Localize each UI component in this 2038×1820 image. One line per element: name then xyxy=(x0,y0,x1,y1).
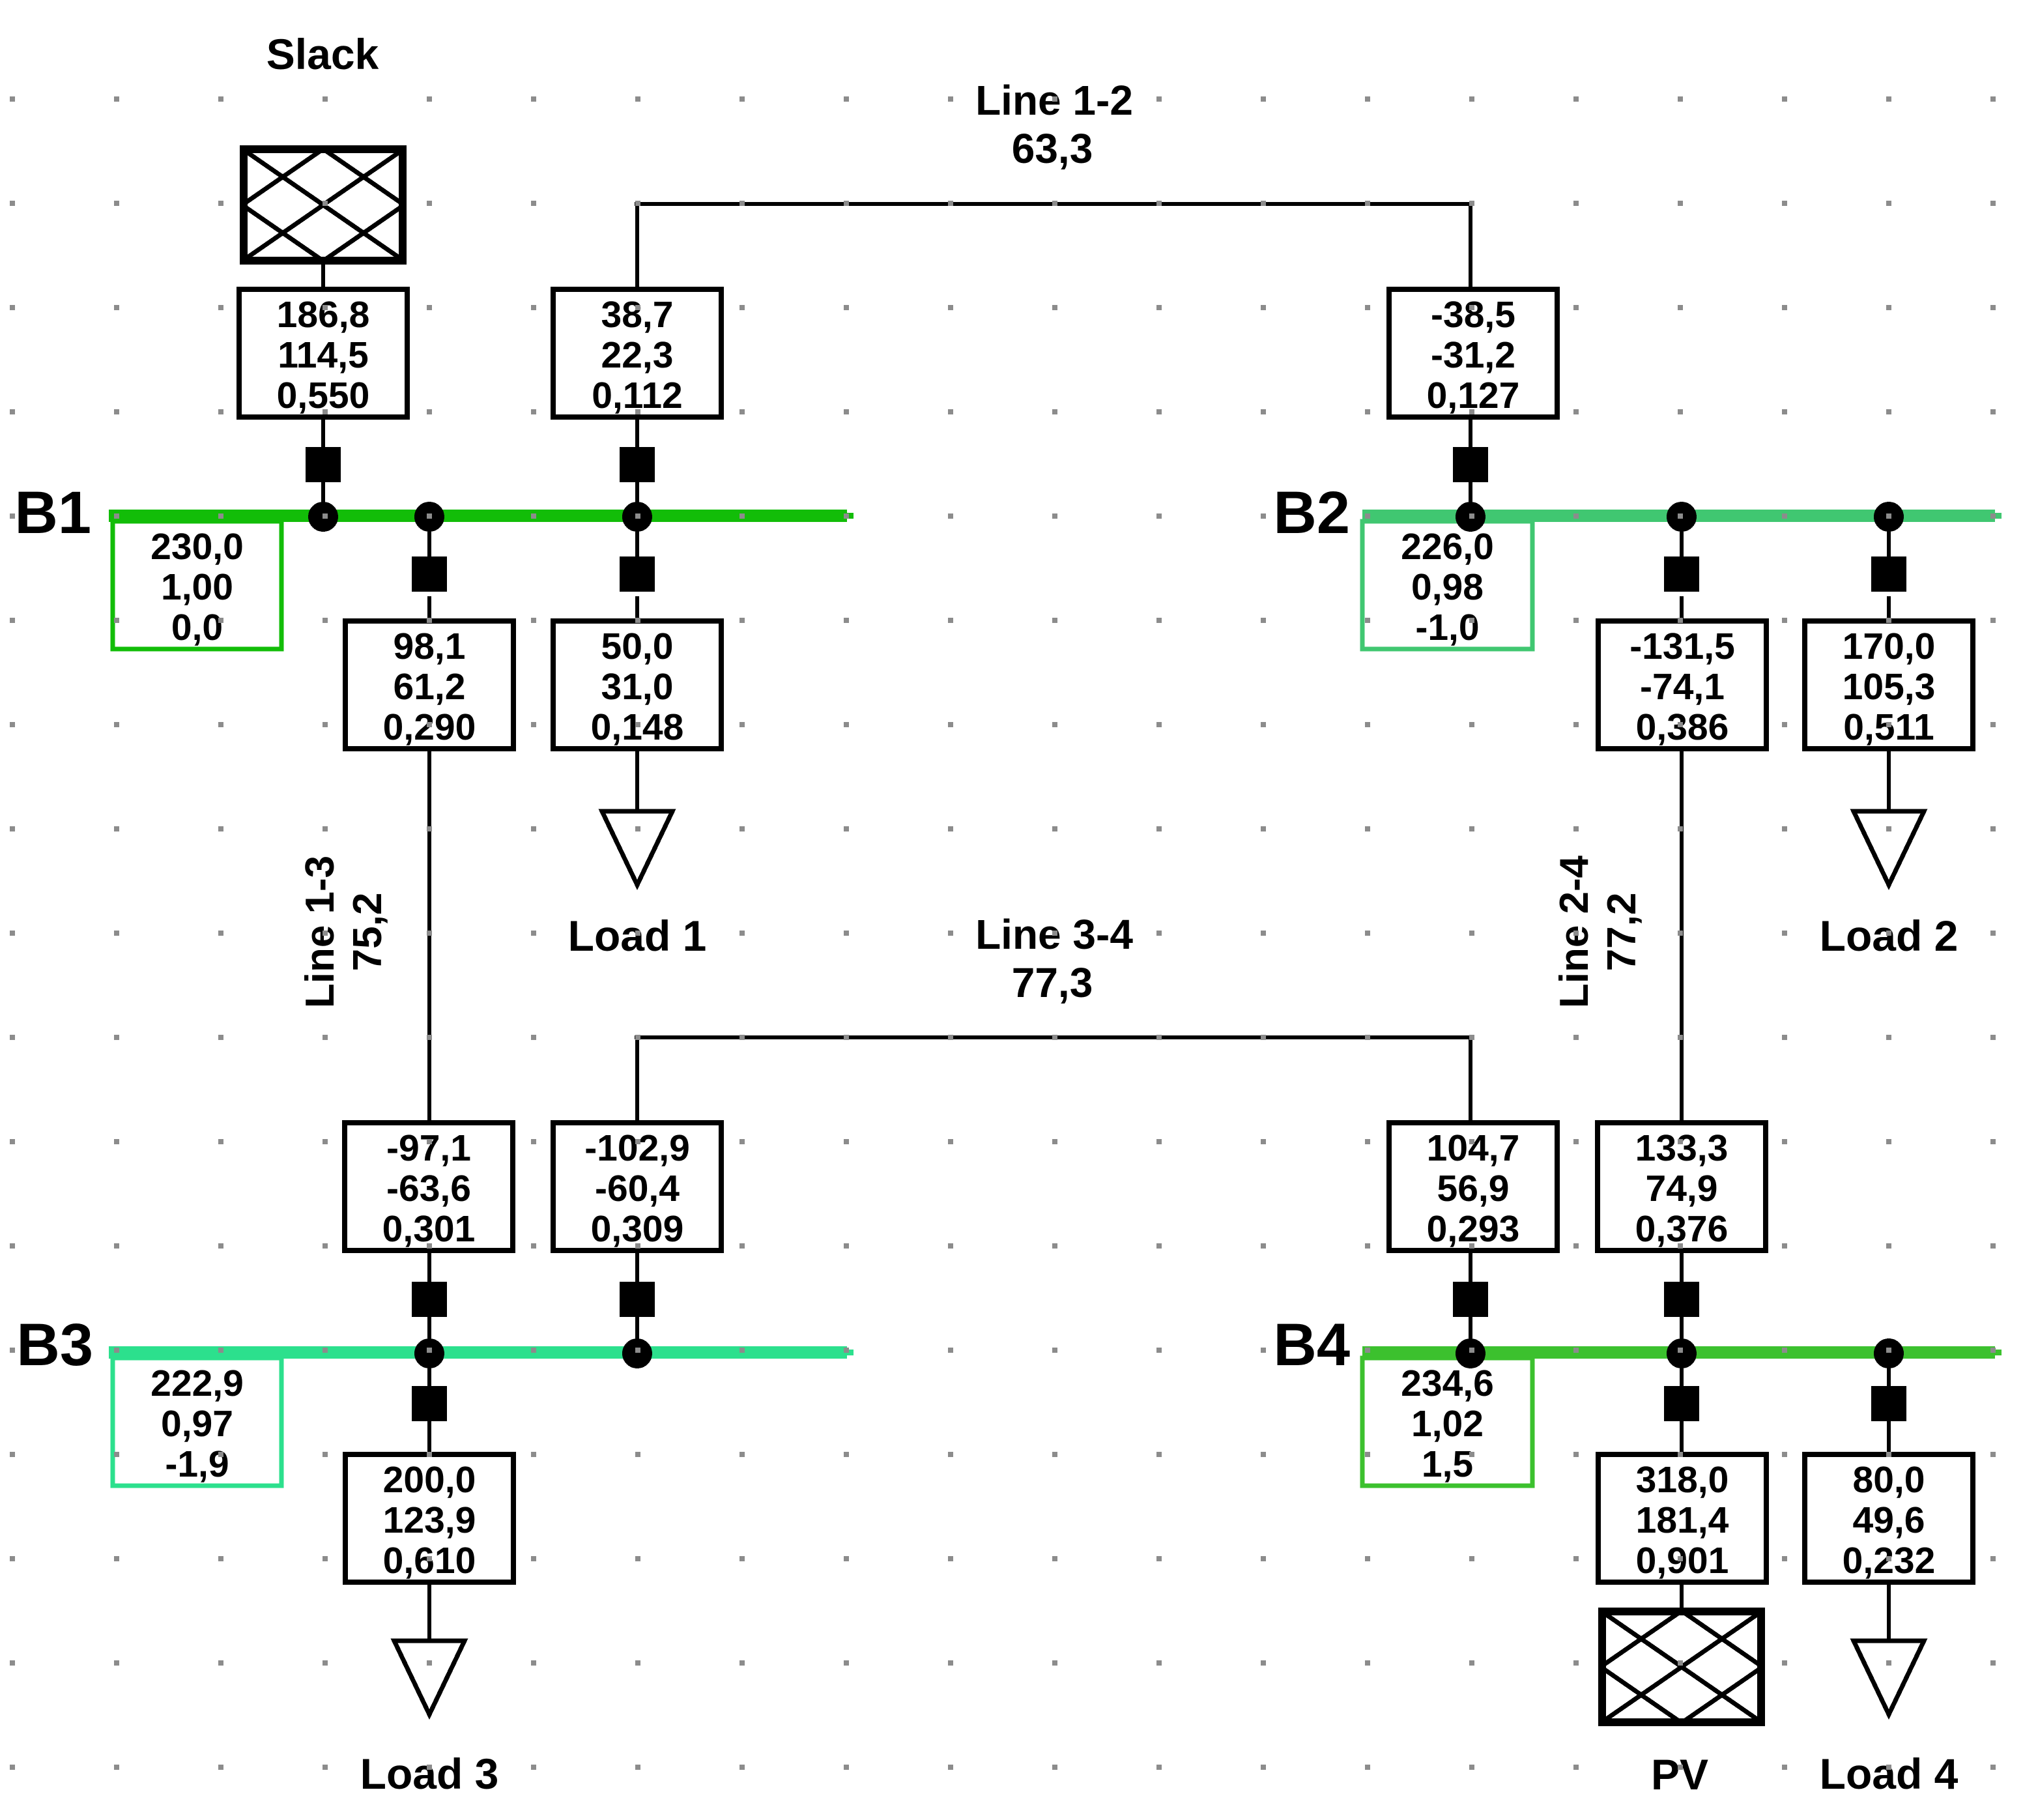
wire Load3 switch to box xyxy=(427,1421,431,1454)
wire Line3-4 B4 box to switch xyxy=(1469,1250,1472,1282)
load Load 3 symbol xyxy=(394,1641,465,1714)
node B4 Load4 connection xyxy=(1874,1338,1904,1368)
wire Line1-3 B3 box to switch xyxy=(427,1250,431,1282)
wire Line1-3 bus to switch xyxy=(427,517,431,561)
result box Line 1-2 B2 end -38,5 xyxy=(1389,289,1557,417)
wire Line1-3 switch to box xyxy=(427,596,431,621)
generator PV symbol xyxy=(1602,1611,1761,1722)
wire Load1 bus to switch xyxy=(635,517,639,561)
result box Line 3-4 B3 end -102,9 xyxy=(553,1123,721,1250)
wire Line3-4 B3 box to switch xyxy=(635,1250,639,1282)
result box B3 voltage 222,9 xyxy=(113,1358,281,1486)
result box Line 2-4 B2 end -131,5 xyxy=(1598,621,1766,749)
result box B1 voltage 230,0 xyxy=(113,521,281,649)
wire Load1 switch to box xyxy=(635,596,639,621)
wire PV switch to box xyxy=(1680,1421,1684,1454)
result box B4 voltage 234,6 xyxy=(1362,1358,1532,1486)
load Load 4 symbol xyxy=(1854,1641,1924,1714)
wire Line 1-2 left riser xyxy=(635,204,639,289)
wire PV box to generator xyxy=(1680,1582,1684,1611)
load Load 1 symbol xyxy=(602,811,672,885)
wire Line2-4 bus to switch xyxy=(1680,517,1684,561)
node B1 Line1-3 connection xyxy=(414,502,444,532)
switch Load 1 breaker xyxy=(620,556,655,592)
switch Line 1-2 B1 breaker xyxy=(620,447,655,482)
result box Line 1-3 B3 end -97,1 xyxy=(345,1123,513,1250)
wire Line 3-4 horizontal xyxy=(635,1035,1473,1039)
wire Line1-2 B2 switch to bus xyxy=(1469,482,1472,517)
wire Line 3-4 right riser xyxy=(1469,1037,1472,1123)
switch Line 1-2 B2 breaker xyxy=(1453,447,1488,482)
busbar B2 xyxy=(1362,510,2002,522)
wire Line3-4 B4 switch to bus xyxy=(1469,1317,1472,1353)
switch Load 4 breaker xyxy=(1871,1386,1906,1421)
wire Line1-2 switch to B1 xyxy=(635,482,639,517)
busbar B3 xyxy=(109,1346,854,1359)
switch Line 1-3 B1 breaker xyxy=(412,556,447,592)
result box Line 3-4 B4 end 104,7 xyxy=(1389,1123,1557,1250)
wire Load3 bus to switch xyxy=(427,1353,431,1391)
wire Load4 switch to box xyxy=(1887,1421,1891,1454)
result box B2 voltage 226,0 xyxy=(1362,521,1532,649)
node B3 Line1-3 connection xyxy=(414,1338,444,1368)
node B2 Line2-4 connection xyxy=(1667,502,1697,532)
result box slack flow 186,8 xyxy=(239,289,407,417)
switch Load 2 breaker xyxy=(1871,556,1906,592)
wire Line2-4 switch to box xyxy=(1680,596,1684,621)
node B1 Line1-2 connection xyxy=(622,502,652,532)
switch Line 3-4 B3 breaker xyxy=(620,1282,655,1317)
switch Line 1-3 B3 breaker xyxy=(412,1282,447,1317)
node B3 Line3-4 connection xyxy=(622,1338,652,1368)
result box Line 1-3 B1 end 98,1 xyxy=(345,621,513,749)
switch PV breaker xyxy=(1664,1386,1699,1421)
busbar B1 xyxy=(109,510,854,522)
wire Line1-3 B3 switch to bus xyxy=(427,1317,431,1353)
wire slack gen to result box xyxy=(321,261,325,289)
node B2 Line1-2 connection xyxy=(1456,502,1485,532)
busbar B4 xyxy=(1362,1346,2002,1359)
wire Line3-4 B3 switch to bus xyxy=(635,1317,639,1353)
wire Load2 bus to switch xyxy=(1887,517,1891,561)
result box Load 1 flow 50,0 xyxy=(553,621,721,749)
wire Load4 bus to switch xyxy=(1887,1353,1891,1391)
node B4 Line3-4 connection xyxy=(1456,1338,1485,1368)
wire Line 2-4 span xyxy=(1680,749,1684,1123)
result box Load 3 flow 200,0 xyxy=(345,1454,513,1582)
switch Line 3-4 B4 breaker xyxy=(1453,1282,1488,1317)
load Load 2 symbol xyxy=(1854,811,1924,885)
switch Line 2-4 B2 breaker xyxy=(1664,556,1699,592)
wire Line2-4 B4 switch to bus xyxy=(1680,1317,1684,1353)
wire Load2 switch to box xyxy=(1887,596,1891,621)
wire Line 3-4 left riser xyxy=(635,1037,639,1123)
switch Line 2-4 B4 breaker xyxy=(1664,1282,1699,1317)
result box Load 4 flow 80,0 xyxy=(1805,1454,1973,1582)
wire Load4 box to symbol xyxy=(1887,1582,1891,1641)
node B1 slack connection xyxy=(308,502,338,532)
switch slack breaker xyxy=(306,447,341,482)
wire Load2 box to symbol xyxy=(1887,749,1891,811)
switch Load 3 breaker xyxy=(412,1386,447,1421)
wire Line 1-3 span xyxy=(427,749,431,1123)
wire slack switch to B1 xyxy=(321,482,325,517)
wire PV bus to switch xyxy=(1680,1353,1684,1391)
wire Load1 box to symbol xyxy=(635,749,639,811)
wire slack box to switch xyxy=(321,417,325,447)
result box Line 1-2 B1 end 38,7 xyxy=(553,289,721,417)
wire Line1-2 box to switch xyxy=(635,417,639,447)
result box PV flow 318,0 xyxy=(1598,1454,1766,1582)
generator Slack symbol xyxy=(244,149,403,261)
wire Load3 box to symbol xyxy=(427,1582,431,1641)
result box Load 2 flow 170,0 xyxy=(1805,621,1973,749)
node B4 Line2-4 connection xyxy=(1667,1338,1697,1368)
wire Line 1-2 horizontal xyxy=(635,202,1473,206)
wire Line1-2 B2 box to switch xyxy=(1469,417,1472,447)
wire Line2-4 B4 box to switch xyxy=(1680,1250,1684,1282)
wire Line 1-2 right riser xyxy=(1469,204,1472,289)
result box Line 2-4 B4 end 133,3 xyxy=(1598,1123,1766,1250)
node B2 Load2 connection xyxy=(1874,502,1904,532)
